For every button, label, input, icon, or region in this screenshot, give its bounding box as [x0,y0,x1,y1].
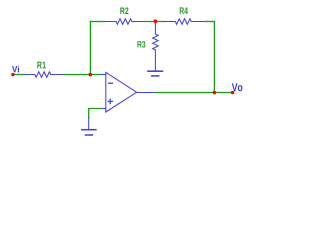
wire non-inverting input [89,109,102,119]
ground below op-amp [88,118,90,130]
wire R2 to top node [146,21,164,23]
resistor R1 [24,72,65,78]
wire feedback vertical [89,22,91,75]
op-amp U1 [106,72,137,112]
wire right vertical [213,22,215,93]
wire Vi to R1 [14,74,25,76]
resistor R3 [153,22,159,71]
label R1 [37,62,46,69]
wire R1 to inverting node [65,74,101,76]
wire op-amp output to node [155,92,214,94]
resistor R2 [105,19,146,25]
label R2 [120,7,128,14]
node Vo terminal [231,91,234,94]
label Vi [12,66,19,73]
node top junction [154,19,158,23]
wire R4 to top-right corner [205,21,215,23]
ground below R3 [148,70,163,72]
node inverting junction [89,73,93,77]
node output junction [213,91,217,95]
label R4 [180,7,188,14]
node Vi terminal [11,73,14,76]
resistor R4 [164,19,205,25]
wire top-left to R2 [90,21,104,23]
label R3 [137,41,145,48]
wire node to Vo [214,92,232,94]
label Vo [232,83,243,91]
